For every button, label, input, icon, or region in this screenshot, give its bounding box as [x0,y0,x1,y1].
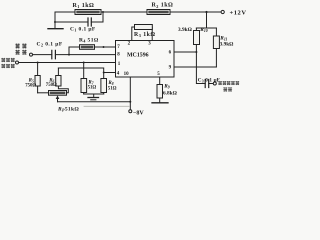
node divider-C1 [54,21,56,23]
svg-text:R3 1kΩ: R3 1kΩ [134,32,156,38]
node R8 top [103,72,105,74]
IC U1 MC1596 body [116,41,175,78]
svg-text:3.9kΩ: 3.9kΩ [178,27,192,33]
ground (R7 R8) [88,97,99,99]
pot wiper arrowhead [56,95,60,99]
wire C1 bypass [55,12,103,22]
svg-text:C3 0.1 μF: C3 0.1 μF [198,78,220,84]
wire R4 branch [69,47,116,55]
resistor R3 [135,25,153,30]
label AM output (普通调幅波) [218,81,222,85]
node pin6 R10 [195,51,197,53]
node bus pin10 [129,101,131,103]
label modulating input (调制信) [1,58,5,62]
svg-text:R8: R8 [108,81,113,86]
wire R11 column [215,28,217,67]
wire R7 column [83,63,85,95]
svg-text:C1 0.1 μF: C1 0.1 μF [70,27,96,33]
svg-text:R11: R11 [220,35,227,41]
resistor R4 [80,45,95,50]
wire pin 6 [174,51,196,53]
svg-text:10: 10 [124,72,130,77]
resistor R9 [157,85,163,99]
wire modulating input line (pin 1) [19,62,116,64]
wire output drop [196,52,213,84]
resistor R7 [81,79,87,93]
svg-text:R2 1kΩ: R2 1kΩ [152,3,174,9]
node carrier-R4 [68,54,70,56]
capacitor C2 plates [52,50,56,58]
svg-text:R1 1kΩ: R1 1kΩ [73,3,95,9]
label modulating input (号输入) [1,64,5,68]
potentiometer RP [49,91,67,96]
svg-text:MC1596: MC1596 [127,53,149,59]
svg-text:−8V: −8V [133,110,144,116]
label carrier input (载波) [15,44,20,49]
node pin7 bias [103,46,105,48]
svg-text:750Ω: 750Ω [25,84,36,89]
ground (R9) [152,102,168,104]
wire +12V rail [55,11,221,13]
wire pin 10 drop [129,77,131,110]
wire R10 R11 top tie [196,12,216,28]
wire top-left ground drop [54,12,56,29]
resistor R6 [56,76,61,87]
node R7 top [83,62,85,64]
wire R10 column [195,28,197,52]
capacitor C3 plates [205,80,209,88]
wire pin 9 [174,66,216,68]
resistor R5 [35,76,40,87]
svg-text:6.8kΩ: 6.8kΩ [163,90,177,96]
wire pot wiper [57,98,59,102]
resistor R10 [194,31,200,45]
resistor R2 [147,10,170,15]
terminal carrier input [30,53,33,56]
terminal -8V [129,110,132,113]
svg-text:R4 51Ω: R4 51Ω [79,38,99,44]
wire pin 3 riser [151,27,153,41]
label AM output (输出) [223,87,227,91]
wire faint artifact [84,105,129,107]
resistor R8 [101,79,107,93]
ground (top left) [48,28,63,30]
svg-text:750Ω: 750Ω [46,83,57,88]
wire negative supply bus [58,101,131,103]
node R5 top [37,62,39,64]
wire pin 4 line [58,68,115,94]
wire pin 2 riser [132,27,135,41]
svg-text:+12V: +12V [230,10,247,17]
wire carrier input line [33,54,116,56]
label carrier input (输入) [15,50,20,55]
svg-text:C2 0.1 μF: C2 0.1 μF [37,41,63,47]
terminal AM output [213,82,216,85]
node rail-C1 [102,11,104,13]
svg-text:R9: R9 [164,84,170,90]
svg-text:RP51kΩ: RP51kΩ [57,107,79,113]
svg-text:3.9kΩ: 3.9kΩ [220,42,234,48]
capacitor C1 plates [88,18,91,26]
svg-text:51Ω: 51Ω [108,87,117,92]
node rail-R10R11 [205,11,207,13]
wire pin 5 / R9 column [159,77,161,103]
wire R7-R8 bottom join [84,94,104,97]
wire pot left lead [38,92,49,94]
wire R6 column and jog [58,68,68,93]
terminal modulating input [16,61,19,64]
terminal +12V [221,10,224,13]
wire R5 column [37,63,39,93]
resistor R1 [75,10,101,15]
resistor R11 [213,36,219,49]
svg-text:51Ω: 51Ω [88,86,97,91]
